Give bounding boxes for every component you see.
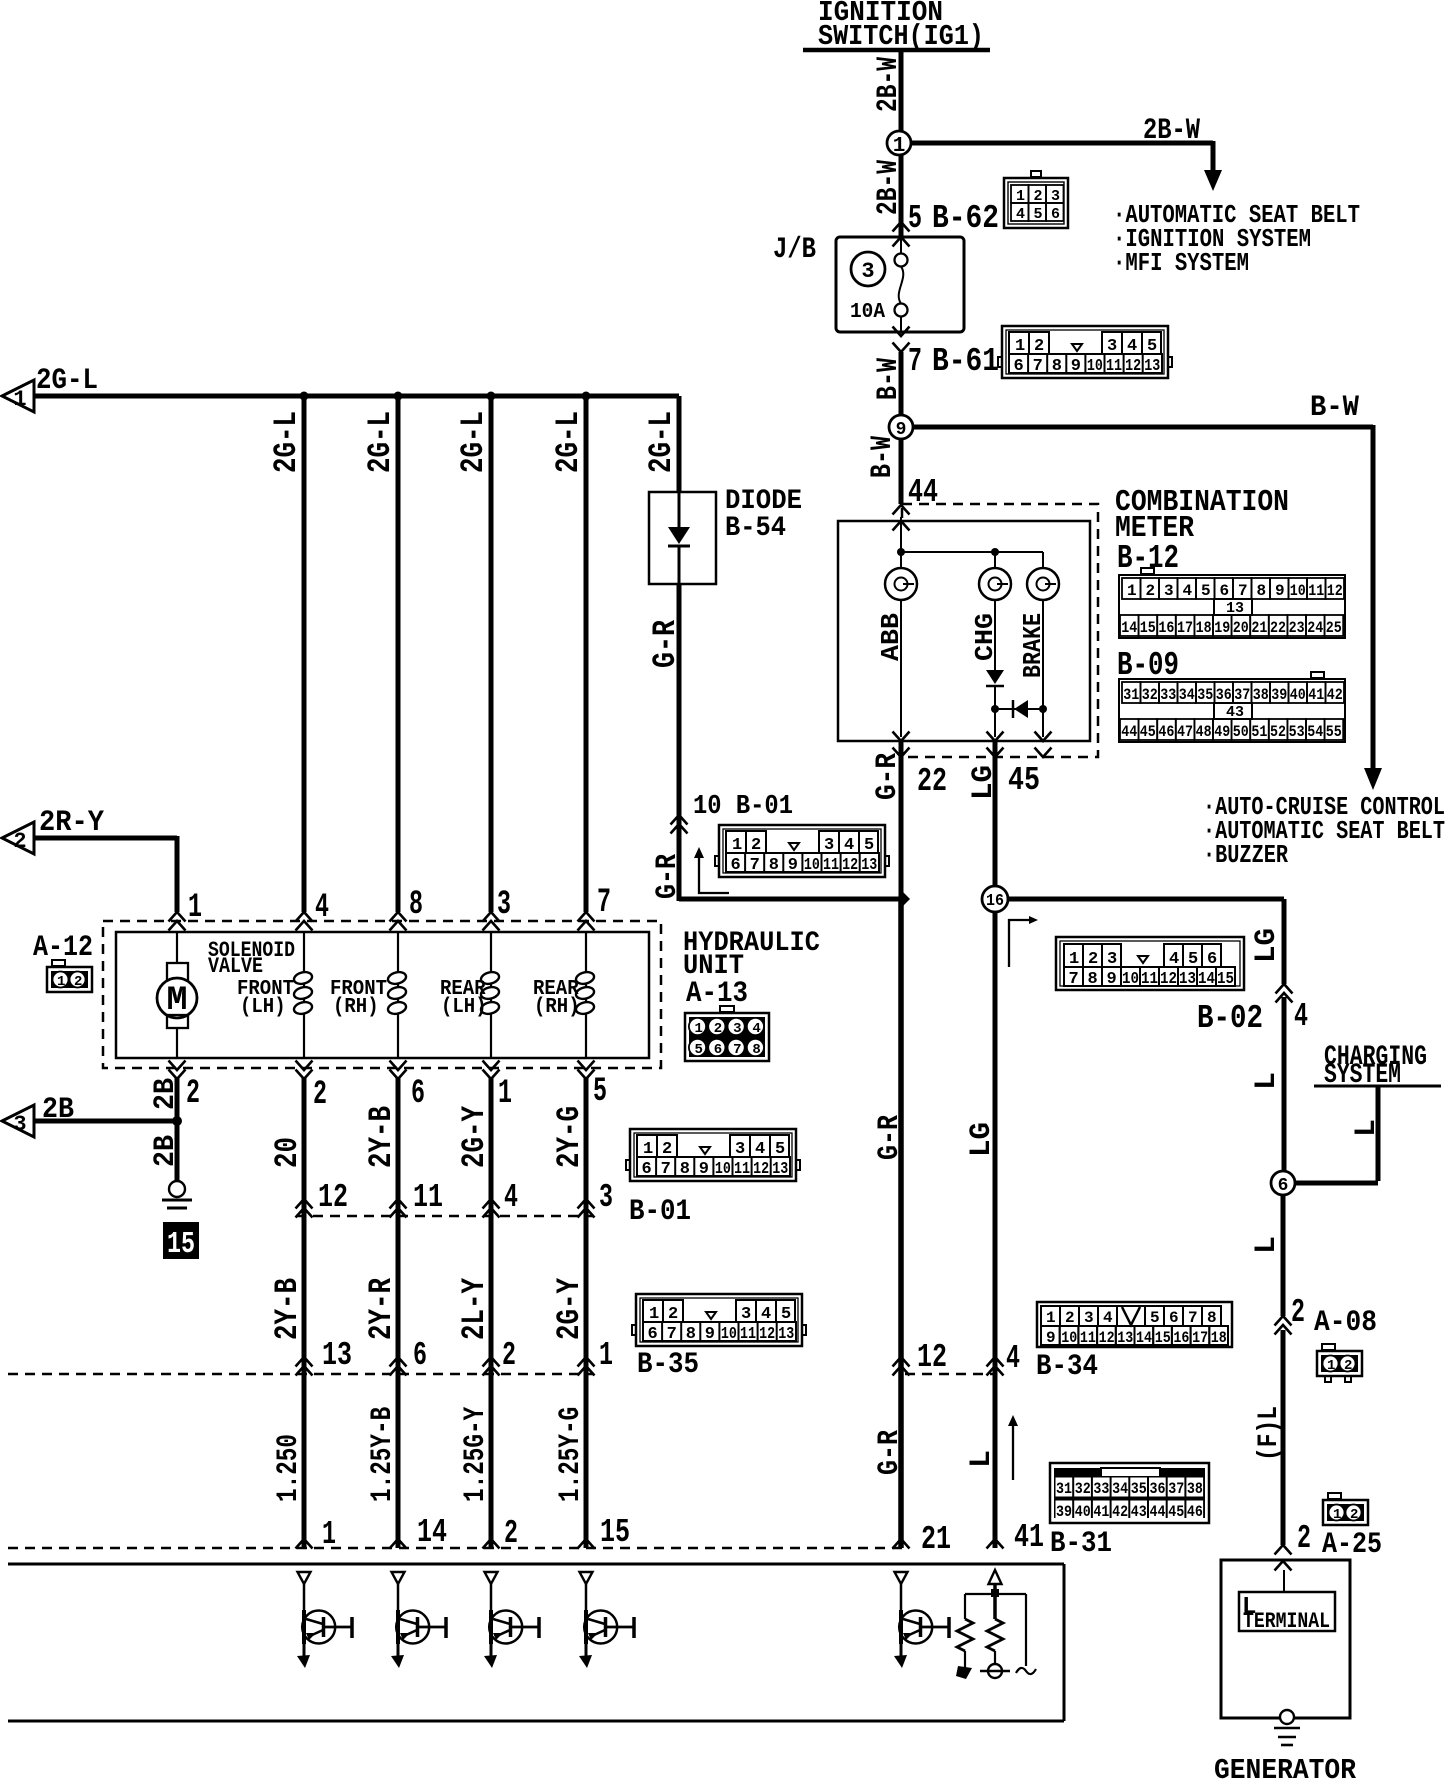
svg-text:B-W: B-W bbox=[1310, 391, 1359, 425]
svg-text:2: 2 bbox=[13, 829, 26, 854]
svg-text:47: 47 bbox=[1177, 723, 1193, 741]
svg-text:46: 46 bbox=[1187, 1503, 1203, 1521]
svg-text:9: 9 bbox=[1071, 357, 1081, 376]
svg-text:21: 21 bbox=[921, 1521, 951, 1558]
svg-text:6: 6 bbox=[714, 1042, 722, 1058]
svg-text:4: 4 bbox=[752, 1021, 760, 1037]
svg-text:6: 6 bbox=[642, 1160, 652, 1179]
svg-text:15: 15 bbox=[600, 1514, 630, 1551]
svg-text:6: 6 bbox=[1051, 206, 1060, 223]
svg-text:B-W: B-W bbox=[872, 358, 906, 400]
svg-text:14: 14 bbox=[1198, 970, 1215, 989]
svg-text:4: 4 bbox=[1294, 998, 1308, 1035]
svg-text:18: 18 bbox=[1196, 619, 1212, 637]
svg-text:13: 13 bbox=[861, 856, 877, 875]
svg-text:55: 55 bbox=[1326, 723, 1342, 741]
svg-text:2: 2 bbox=[504, 1515, 518, 1552]
svg-text:34: 34 bbox=[1179, 686, 1195, 704]
svg-text:8: 8 bbox=[1207, 1309, 1217, 1327]
svg-text:2Y-B: 2Y-B bbox=[363, 1106, 400, 1168]
svg-text:48: 48 bbox=[1196, 723, 1212, 741]
svg-text:10: 10 bbox=[1087, 357, 1103, 376]
svg-text:36: 36 bbox=[1216, 686, 1232, 704]
svg-text:(LH): (LH) bbox=[441, 996, 487, 1019]
svg-text:17: 17 bbox=[1192, 1329, 1208, 1347]
svg-text:4: 4 bbox=[1103, 1309, 1113, 1327]
svg-text:1: 1 bbox=[13, 387, 26, 412]
svg-text:4: 4 bbox=[1006, 1340, 1020, 1377]
svg-text:2G-L: 2G-L bbox=[362, 411, 399, 473]
svg-text:14: 14 bbox=[1136, 1329, 1152, 1347]
svg-text:14: 14 bbox=[1121, 619, 1137, 637]
svg-text:10: 10 bbox=[1122, 970, 1139, 989]
svg-text:25: 25 bbox=[1326, 619, 1342, 637]
svg-text:53: 53 bbox=[1289, 723, 1305, 741]
svg-text:6: 6 bbox=[413, 1337, 427, 1374]
svg-text:5: 5 bbox=[1034, 206, 1043, 223]
svg-text:LG: LG bbox=[1250, 928, 1284, 963]
svg-text:2: 2 bbox=[1344, 1358, 1352, 1374]
svg-text:L: L bbox=[1250, 1236, 1284, 1254]
svg-text:1.25G-Y: 1.25G-Y bbox=[459, 1407, 493, 1502]
svg-text:45: 45 bbox=[1168, 1503, 1184, 1521]
svg-text:(LH): (LH) bbox=[240, 996, 286, 1019]
svg-text:B-34: B-34 bbox=[1036, 1350, 1098, 1384]
svg-text:7: 7 bbox=[597, 884, 611, 922]
svg-text:12: 12 bbox=[1327, 582, 1343, 600]
svg-text:14: 14 bbox=[417, 1514, 447, 1551]
svg-text:12: 12 bbox=[842, 856, 858, 875]
svg-text:52: 52 bbox=[1270, 723, 1286, 741]
svg-text:B-61: B-61 bbox=[932, 343, 999, 380]
svg-text:9: 9 bbox=[1275, 582, 1285, 600]
svg-text:7: 7 bbox=[1188, 1309, 1198, 1327]
svg-text:5: 5 bbox=[695, 1042, 703, 1058]
svg-text:8: 8 bbox=[752, 1042, 760, 1058]
svg-text:15: 15 bbox=[1140, 619, 1156, 637]
svg-text:2: 2 bbox=[1297, 1520, 1311, 1557]
svg-text:2: 2 bbox=[313, 1076, 327, 1114]
svg-text:BRAKE: BRAKE bbox=[1018, 613, 1048, 678]
svg-text:CHG: CHG bbox=[970, 613, 1000, 661]
svg-text:7: 7 bbox=[1033, 357, 1043, 376]
svg-text:(RH): (RH) bbox=[333, 996, 379, 1019]
svg-text:2L-Y: 2L-Y bbox=[456, 1277, 493, 1340]
svg-text:16: 16 bbox=[986, 892, 1004, 911]
svg-text:12: 12 bbox=[318, 1179, 348, 1216]
svg-text:45: 45 bbox=[1140, 723, 1156, 741]
svg-text:1: 1 bbox=[695, 1021, 703, 1037]
svg-text:7: 7 bbox=[750, 856, 760, 875]
svg-text:1: 1 bbox=[1127, 582, 1137, 600]
svg-text:LG: LG bbox=[965, 1122, 999, 1157]
svg-text:J/B: J/B bbox=[773, 233, 816, 267]
svg-text:44: 44 bbox=[1150, 1503, 1166, 1521]
svg-text:15: 15 bbox=[1217, 970, 1234, 989]
svg-text:2Y-R: 2Y-R bbox=[363, 1277, 400, 1340]
svg-text:2B-W: 2B-W bbox=[872, 57, 906, 112]
svg-text:22: 22 bbox=[917, 763, 947, 800]
svg-text:8: 8 bbox=[769, 856, 779, 875]
svg-text:33: 33 bbox=[1160, 686, 1176, 704]
svg-text:5: 5 bbox=[908, 200, 922, 237]
svg-text:13: 13 bbox=[1179, 970, 1196, 989]
svg-text:7: 7 bbox=[733, 1042, 741, 1058]
svg-text:8: 8 bbox=[686, 1325, 696, 1344]
svg-text:2Y-B: 2Y-B bbox=[269, 1278, 306, 1340]
svg-text:13: 13 bbox=[1144, 357, 1160, 376]
svg-text:2: 2 bbox=[1350, 1507, 1358, 1523]
svg-text:1: 1 bbox=[1333, 1507, 1341, 1523]
svg-text:A-25: A-25 bbox=[1322, 1528, 1382, 1562]
svg-text:51: 51 bbox=[1251, 723, 1267, 741]
svg-text:33: 33 bbox=[1093, 1480, 1109, 1498]
svg-text:3: 3 bbox=[599, 1179, 613, 1216]
svg-text:39: 39 bbox=[1056, 1503, 1072, 1521]
svg-text:31: 31 bbox=[1056, 1480, 1072, 1498]
svg-text:37: 37 bbox=[1234, 686, 1250, 704]
svg-text:44: 44 bbox=[1121, 723, 1137, 741]
svg-text:42: 42 bbox=[1327, 686, 1343, 704]
svg-text:19: 19 bbox=[1214, 619, 1230, 637]
svg-text:10: 10 bbox=[721, 1325, 737, 1344]
svg-text:GENERATOR: GENERATOR bbox=[1214, 1754, 1357, 1786]
svg-text:1: 1 bbox=[1046, 1309, 1056, 1327]
svg-text:6: 6 bbox=[1220, 582, 1230, 600]
svg-text:10A: 10A bbox=[850, 301, 885, 324]
svg-text:G-R: G-R bbox=[871, 753, 905, 800]
svg-text:23: 23 bbox=[1289, 619, 1305, 637]
svg-text:10: 10 bbox=[804, 856, 820, 875]
svg-text:1.25Y-B: 1.25Y-B bbox=[366, 1407, 400, 1502]
svg-text:4: 4 bbox=[504, 1179, 518, 1216]
svg-text:B-01: B-01 bbox=[629, 1195, 691, 1229]
svg-text:6: 6 bbox=[1169, 1309, 1179, 1327]
svg-text:11: 11 bbox=[1141, 970, 1158, 989]
svg-text:1: 1 bbox=[1327, 1358, 1335, 1374]
svg-text:18: 18 bbox=[1211, 1329, 1227, 1347]
svg-text:45: 45 bbox=[1008, 762, 1040, 799]
svg-text:4: 4 bbox=[1016, 206, 1025, 223]
svg-text:5: 5 bbox=[1201, 582, 1211, 600]
svg-text:5: 5 bbox=[1150, 1309, 1160, 1327]
svg-text:13: 13 bbox=[772, 1160, 788, 1179]
svg-text:VALVE: VALVE bbox=[208, 954, 263, 979]
svg-text:2: 2 bbox=[74, 974, 82, 990]
svg-text:G-R: G-R bbox=[873, 1115, 907, 1160]
svg-text:11: 11 bbox=[734, 1160, 750, 1179]
svg-text:38: 38 bbox=[1253, 686, 1269, 704]
svg-text:12: 12 bbox=[1099, 1329, 1115, 1347]
svg-text:16: 16 bbox=[1158, 619, 1174, 637]
svg-text:11: 11 bbox=[1308, 582, 1324, 600]
svg-text:43: 43 bbox=[1131, 1503, 1147, 1521]
svg-text:10: 10 bbox=[1290, 582, 1306, 600]
svg-text:41: 41 bbox=[1093, 1503, 1109, 1521]
svg-text:12: 12 bbox=[917, 1339, 947, 1376]
svg-text:50: 50 bbox=[1233, 723, 1249, 741]
svg-text:24: 24 bbox=[1307, 619, 1323, 637]
svg-text:40: 40 bbox=[1075, 1503, 1091, 1521]
svg-text:8: 8 bbox=[1257, 582, 1267, 600]
svg-text:2B-W: 2B-W bbox=[872, 160, 906, 215]
svg-text:B-12: B-12 bbox=[1117, 540, 1179, 577]
svg-text:11: 11 bbox=[1106, 357, 1122, 376]
svg-text:B-62: B-62 bbox=[932, 200, 999, 237]
svg-text:38: 38 bbox=[1187, 1480, 1203, 1498]
svg-text:2: 2 bbox=[186, 1075, 200, 1113]
svg-text:11: 11 bbox=[823, 856, 839, 875]
svg-text:17: 17 bbox=[1177, 619, 1193, 637]
svg-text:22: 22 bbox=[1270, 619, 1286, 637]
svg-text:32: 32 bbox=[1075, 1480, 1091, 1498]
svg-text:1: 1 bbox=[599, 1337, 613, 1374]
svg-text:11: 11 bbox=[740, 1325, 756, 1344]
svg-text:15: 15 bbox=[167, 1227, 195, 1262]
svg-text:7: 7 bbox=[667, 1325, 677, 1344]
svg-text:15: 15 bbox=[1155, 1329, 1171, 1347]
svg-text:2: 2 bbox=[1291, 1294, 1305, 1331]
svg-text:2B: 2B bbox=[149, 1135, 183, 1167]
svg-text:A-13: A-13 bbox=[686, 977, 748, 1011]
svg-text:2R-Y: 2R-Y bbox=[39, 806, 104, 840]
svg-text:7: 7 bbox=[1069, 970, 1079, 989]
svg-text:9: 9 bbox=[788, 856, 798, 875]
svg-text:1: 1 bbox=[57, 974, 65, 990]
svg-text:L: L bbox=[1350, 1119, 1384, 1137]
svg-text:5: 5 bbox=[593, 1073, 607, 1111]
svg-text:8: 8 bbox=[680, 1160, 690, 1179]
svg-text:1: 1 bbox=[188, 889, 202, 927]
svg-text:4: 4 bbox=[315, 889, 329, 927]
svg-text:A-08: A-08 bbox=[1314, 1306, 1377, 1340]
svg-text:G-R: G-R bbox=[647, 619, 684, 668]
svg-text:7: 7 bbox=[1238, 582, 1248, 600]
svg-text:(F)L: (F)L bbox=[1254, 1406, 1285, 1461]
svg-text:2Y-G: 2Y-G bbox=[551, 1106, 588, 1168]
svg-text:1: 1 bbox=[498, 1075, 512, 1113]
svg-text:G-R: G-R bbox=[873, 1430, 907, 1475]
svg-text:2G-L: 2G-L bbox=[268, 411, 305, 473]
svg-text:TERMINAL: TERMINAL bbox=[1243, 1609, 1330, 1634]
svg-text:·MFI SYSTEM: ·MFI SYSTEM bbox=[1113, 248, 1249, 278]
svg-text:3: 3 bbox=[1084, 1309, 1094, 1327]
svg-text:35: 35 bbox=[1197, 686, 1213, 704]
svg-text:13: 13 bbox=[1117, 1329, 1133, 1347]
svg-text:21: 21 bbox=[1251, 619, 1267, 637]
svg-text:2G-L: 2G-L bbox=[455, 411, 492, 473]
svg-text:8: 8 bbox=[1052, 357, 1062, 376]
svg-text:44: 44 bbox=[908, 474, 938, 511]
svg-text:12: 12 bbox=[1160, 970, 1177, 989]
svg-text:B-02: B-02 bbox=[1197, 1000, 1263, 1037]
svg-text:12: 12 bbox=[753, 1160, 769, 1179]
svg-text:3: 3 bbox=[1164, 582, 1174, 600]
svg-text:10: 10 bbox=[715, 1160, 731, 1179]
svg-text:36: 36 bbox=[1150, 1480, 1166, 1498]
svg-text:B-31: B-31 bbox=[1050, 1527, 1112, 1561]
svg-text:B-54: B-54 bbox=[725, 513, 786, 544]
svg-text:41: 41 bbox=[1308, 686, 1324, 704]
svg-text:10: 10 bbox=[1061, 1329, 1077, 1347]
svg-text:9: 9 bbox=[1046, 1329, 1056, 1347]
svg-text:34: 34 bbox=[1112, 1480, 1128, 1498]
svg-text:37: 37 bbox=[1168, 1480, 1184, 1498]
svg-text:2G-L: 2G-L bbox=[550, 411, 587, 473]
svg-text:6: 6 bbox=[1278, 1176, 1289, 1196]
svg-text:3: 3 bbox=[497, 886, 511, 924]
svg-text:39: 39 bbox=[1271, 686, 1287, 704]
svg-text:42: 42 bbox=[1112, 1503, 1128, 1521]
svg-text:6: 6 bbox=[1014, 357, 1024, 376]
svg-text:49: 49 bbox=[1214, 723, 1230, 741]
svg-text:32: 32 bbox=[1142, 686, 1158, 704]
svg-text:12: 12 bbox=[759, 1325, 775, 1344]
svg-text:11: 11 bbox=[413, 1179, 443, 1216]
svg-text:11: 11 bbox=[1080, 1329, 1096, 1347]
svg-text:7: 7 bbox=[908, 343, 922, 380]
svg-text:6: 6 bbox=[411, 1075, 425, 1113]
svg-text:7: 7 bbox=[661, 1160, 671, 1179]
svg-text:16: 16 bbox=[1173, 1329, 1189, 1347]
svg-text:9: 9 bbox=[1107, 970, 1117, 989]
svg-text:1: 1 bbox=[893, 135, 906, 158]
svg-text:2: 2 bbox=[1065, 1309, 1075, 1327]
svg-text:2G-Y: 2G-Y bbox=[456, 1105, 493, 1168]
svg-text:40: 40 bbox=[1290, 686, 1306, 704]
svg-text:4: 4 bbox=[1183, 582, 1193, 600]
svg-text:20: 20 bbox=[1233, 619, 1249, 637]
svg-text:8: 8 bbox=[1088, 970, 1098, 989]
svg-text:2: 2 bbox=[502, 1337, 516, 1374]
svg-text:6: 6 bbox=[731, 856, 741, 875]
svg-text:2B: 2B bbox=[149, 1078, 183, 1110]
svg-text:B-35: B-35 bbox=[637, 1348, 699, 1382]
svg-text:3: 3 bbox=[861, 259, 874, 284]
svg-text:35: 35 bbox=[1131, 1480, 1147, 1498]
svg-text:L: L bbox=[1250, 1072, 1284, 1090]
svg-text:41: 41 bbox=[1014, 1519, 1044, 1556]
svg-text:3: 3 bbox=[733, 1021, 741, 1037]
svg-text:8: 8 bbox=[409, 886, 423, 924]
svg-text:2G-L: 2G-L bbox=[643, 411, 680, 473]
svg-text:·BUZZER: ·BUZZER bbox=[1203, 840, 1288, 870]
svg-text:1: 1 bbox=[322, 1516, 336, 1553]
svg-text:10 B-01: 10 B-01 bbox=[693, 792, 793, 822]
svg-text:13: 13 bbox=[778, 1325, 794, 1344]
svg-text:1.250: 1.250 bbox=[272, 1434, 306, 1502]
svg-text:2B-W: 2B-W bbox=[1143, 114, 1200, 148]
svg-text:2G-L: 2G-L bbox=[36, 364, 98, 398]
svg-text:31: 31 bbox=[1123, 686, 1139, 704]
svg-text:9: 9 bbox=[699, 1160, 709, 1179]
svg-text:20: 20 bbox=[269, 1137, 306, 1168]
svg-text:B-W: B-W bbox=[866, 436, 900, 478]
svg-text:3: 3 bbox=[13, 1112, 26, 1137]
svg-text:(RH): (RH) bbox=[534, 996, 580, 1019]
svg-text:6: 6 bbox=[648, 1325, 658, 1344]
svg-text:46: 46 bbox=[1158, 723, 1174, 741]
svg-text:2: 2 bbox=[1146, 582, 1156, 600]
svg-text:L: L bbox=[965, 1450, 999, 1468]
svg-text:2G-Y: 2G-Y bbox=[551, 1277, 588, 1340]
svg-text:ABB: ABB bbox=[876, 613, 906, 661]
svg-text:1.25Y-G: 1.25Y-G bbox=[554, 1407, 588, 1502]
svg-text:13: 13 bbox=[322, 1337, 352, 1374]
svg-text:2: 2 bbox=[714, 1021, 722, 1037]
svg-text:12: 12 bbox=[1125, 357, 1141, 376]
svg-text:9: 9 bbox=[705, 1325, 715, 1344]
svg-text:54: 54 bbox=[1307, 723, 1323, 741]
